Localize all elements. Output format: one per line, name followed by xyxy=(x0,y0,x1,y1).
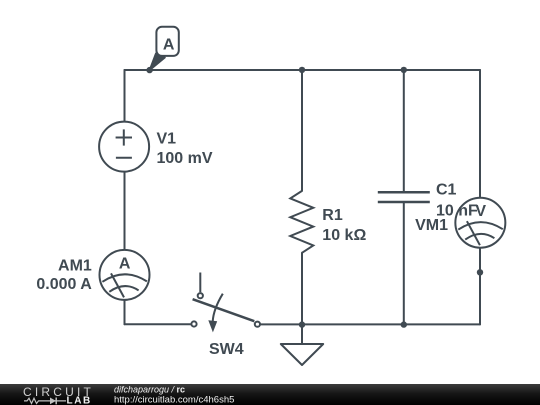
wire: C1 bottom lead to bottom net xyxy=(403,203,405,325)
wire: V1 bottom to AM1 top xyxy=(124,172,126,250)
svg-text:0.000 A: 0.000 A xyxy=(36,276,92,293)
switch SW4 xyxy=(191,273,260,333)
wire: top horizontal net A xyxy=(125,69,481,71)
svg-text:R1: R1 xyxy=(322,207,343,224)
junction dot: bottom net / C1 xyxy=(401,321,407,327)
wire: R1 top lead from top net xyxy=(301,70,303,191)
junction dot: top net / R1 xyxy=(299,67,305,73)
wire: SW4 right terminal to bottom right corner xyxy=(261,323,480,325)
capacitor C1 xyxy=(378,192,430,202)
junction dot: bottom net / ground and R1 xyxy=(299,321,305,327)
resistor R1 xyxy=(290,191,313,253)
footer text xyxy=(114,385,234,405)
wire: C1 top lead from top net xyxy=(403,70,405,191)
wire: SW4 unconnected throw stub xyxy=(199,273,201,293)
junction dot: VM1 bottom lead xyxy=(477,269,483,275)
svg-text:VM1: VM1 xyxy=(415,217,448,234)
wire: AM1 bottom to bottom-left corner xyxy=(124,300,126,324)
junction dot: top net / C1 xyxy=(401,67,407,73)
svg-text:A: A xyxy=(163,36,175,53)
voltage source V1 xyxy=(99,122,149,172)
SW4 actuation arrow xyxy=(213,294,223,322)
wire: left vertical, top wire to V1 xyxy=(124,70,126,121)
svg-text:AM1: AM1 xyxy=(58,258,92,275)
svg-text:10 kΩ: 10 kΩ xyxy=(322,227,366,244)
ammeter AM1 xyxy=(100,250,150,300)
voltmeter VM1 xyxy=(455,198,505,248)
SW4 throw terminal top xyxy=(198,293,203,298)
SW4 throw terminal right xyxy=(255,322,260,327)
SW4 lever xyxy=(193,299,255,321)
svg-text:difchaparrogu / rc: difchaparrogu / rc xyxy=(114,385,185,395)
CircuitLab logo xyxy=(23,385,94,405)
SW4 common terminal left xyxy=(191,321,196,326)
svg-text:A: A xyxy=(119,255,131,272)
node A flag xyxy=(150,27,179,70)
svg-text:http://circuitlab.com/c4h6sh5: http://circuitlab.com/c4h6sh5 xyxy=(114,395,234,405)
wire: R1 bottom lead to bottom net xyxy=(301,253,303,325)
svg-text:SW4: SW4 xyxy=(209,341,244,358)
svg-text:10 nF: 10 nF xyxy=(436,203,478,220)
wire: bottom left horizontal to SW4 left terminal xyxy=(125,323,191,325)
junction dot: node A flag attach point xyxy=(146,67,152,73)
wire: VM1 top lead, top-right corner down xyxy=(479,70,481,198)
ground xyxy=(281,324,323,365)
svg-text:100 mV: 100 mV xyxy=(157,150,213,167)
wire: VM1 bottom lead down to bottom net xyxy=(479,248,481,325)
svg-text:LAB: LAB xyxy=(67,396,92,405)
svg-text:C1: C1 xyxy=(436,182,457,199)
svg-text:V1: V1 xyxy=(157,131,177,148)
